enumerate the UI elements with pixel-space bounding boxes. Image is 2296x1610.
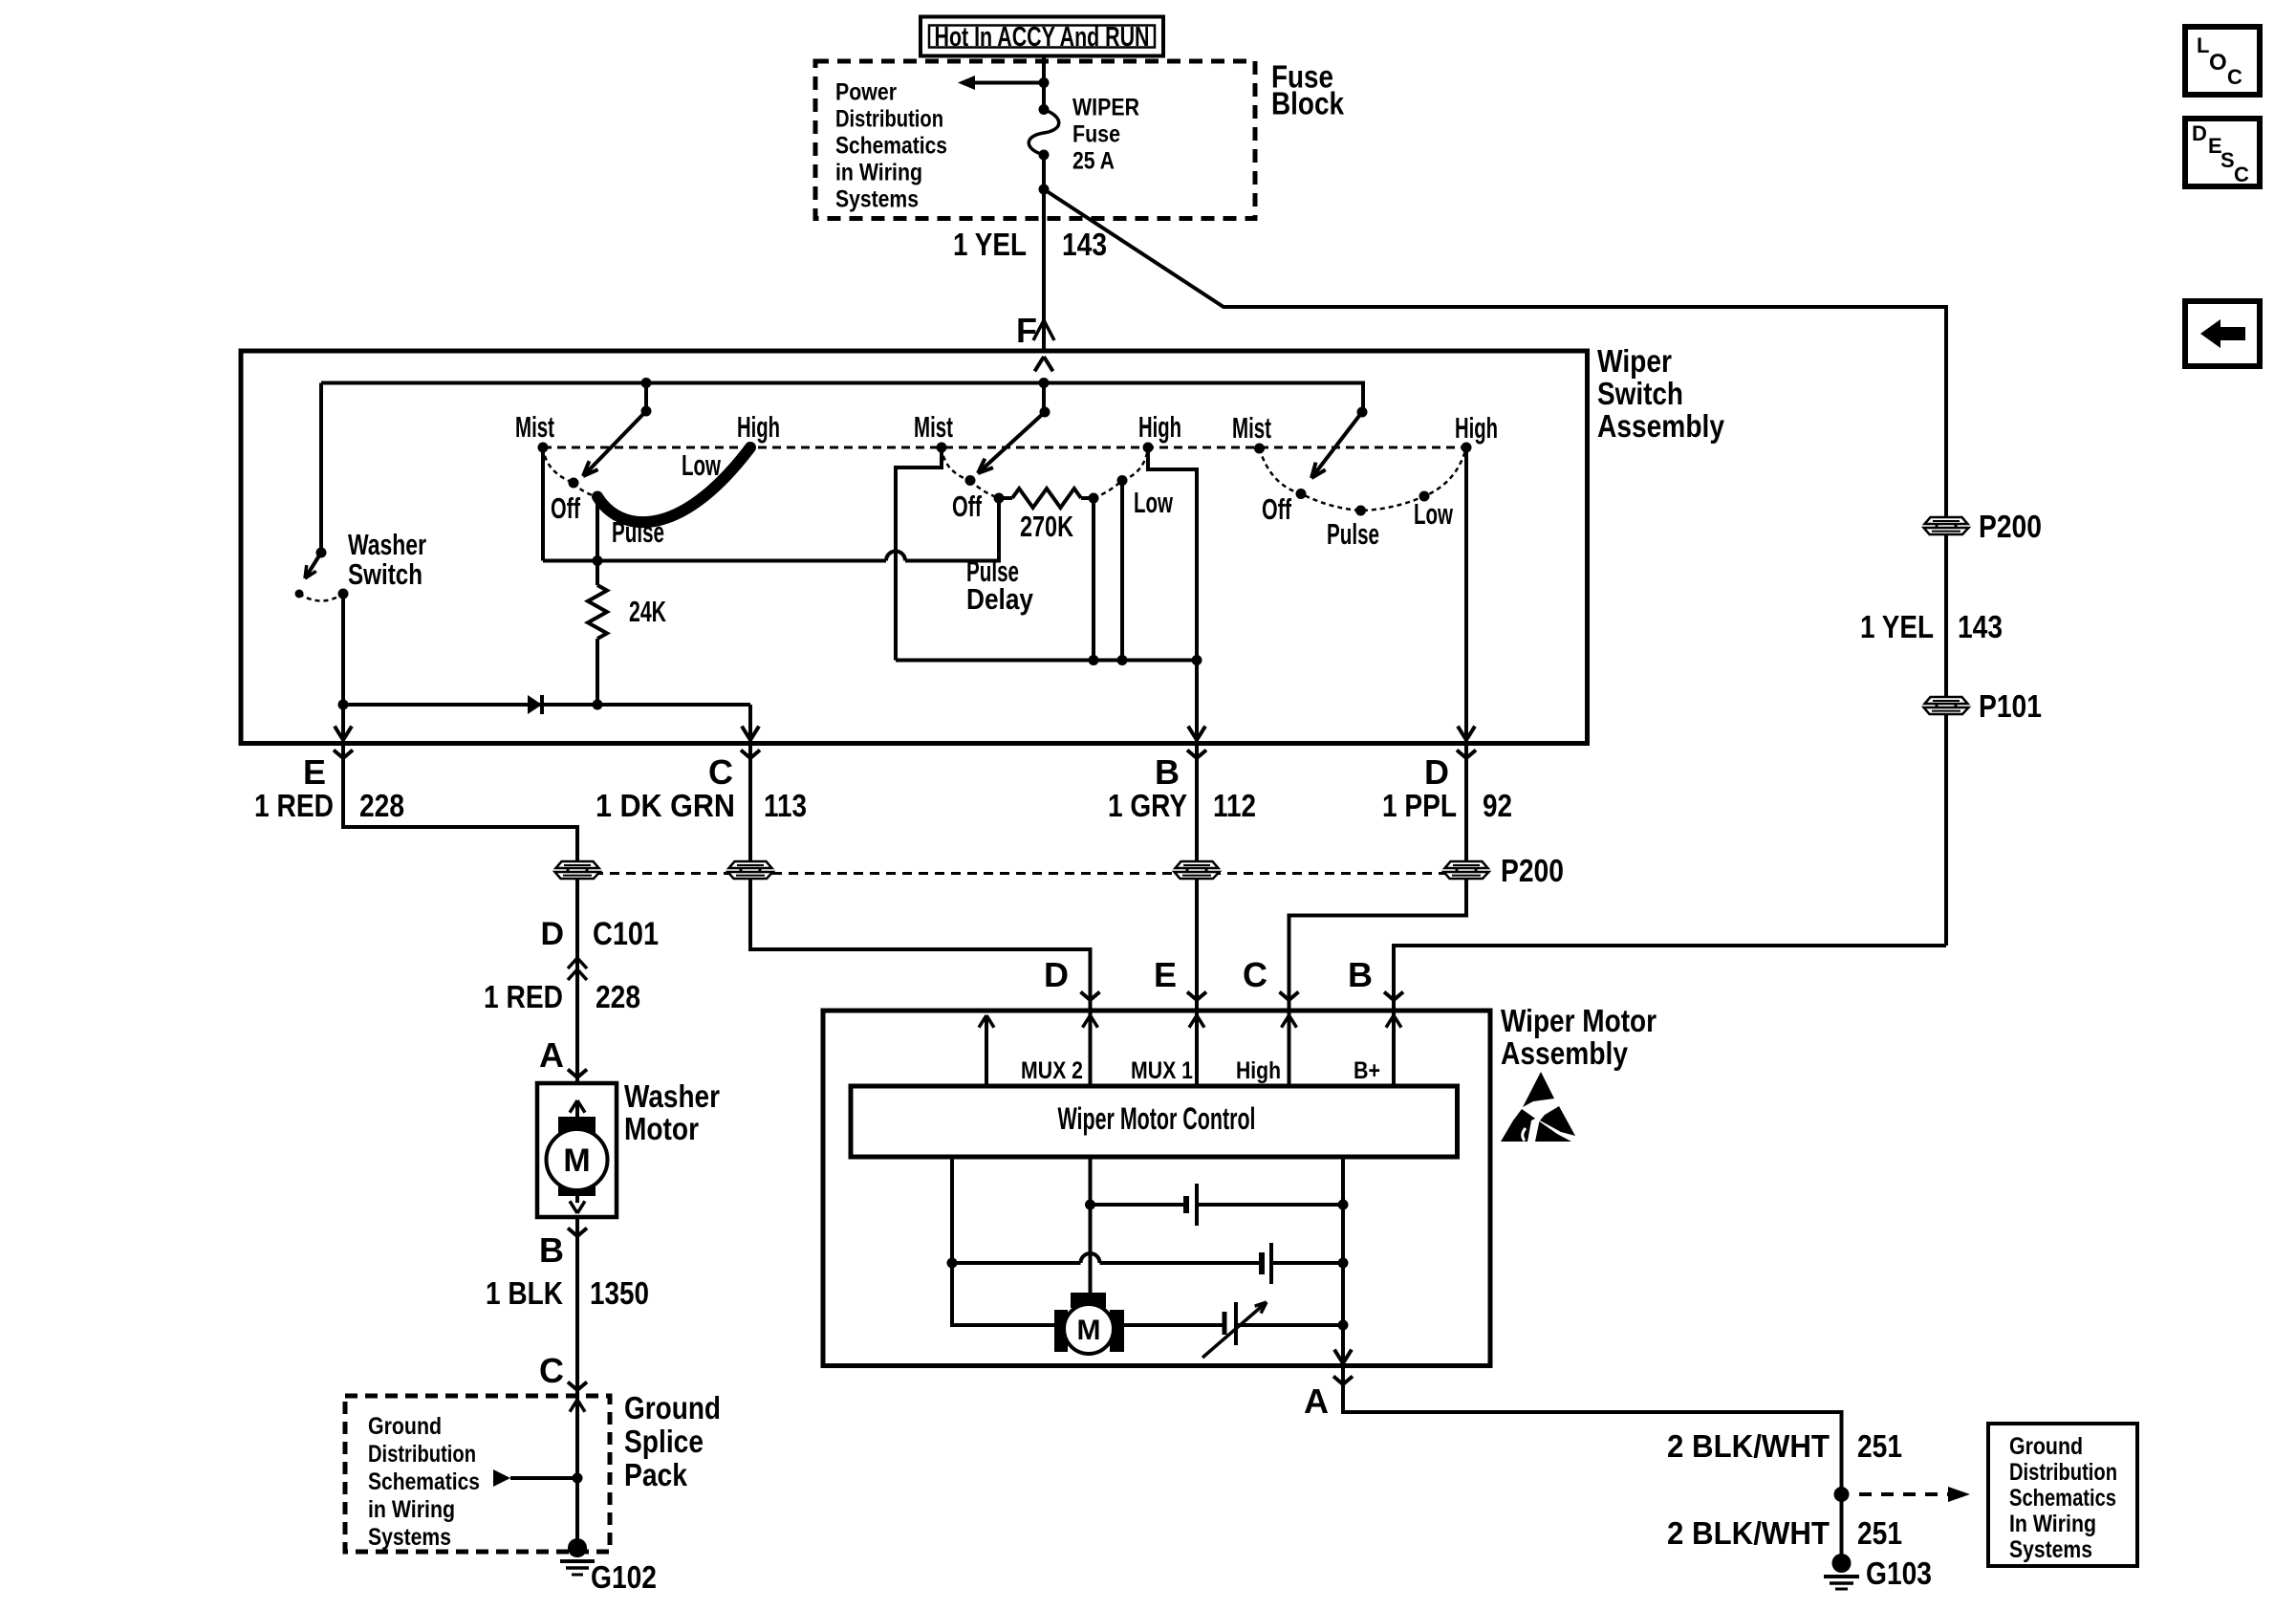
wiper motor assembly box xyxy=(823,1011,1490,1366)
switch 1 Off contact xyxy=(569,478,579,489)
connector P200 on PPL xyxy=(1444,861,1489,879)
svg-text:O: O xyxy=(2209,50,2227,76)
circuit E wire to washer motor xyxy=(343,744,577,1084)
svg-text:Motor: Motor xyxy=(624,1111,699,1146)
exit arrow D xyxy=(1458,727,1466,740)
connector C chevron xyxy=(741,751,750,759)
svg-text:Ground: Ground xyxy=(368,1413,442,1440)
node on feed wire xyxy=(1039,77,1050,88)
wire 1 BLK 1350 xyxy=(575,1217,579,1548)
svg-text:Washer: Washer xyxy=(348,528,426,561)
connector B chevron xyxy=(1187,751,1197,759)
svg-text:Off: Off xyxy=(952,490,982,523)
diode xyxy=(528,695,542,714)
svg-text:Switch: Switch xyxy=(1597,376,1683,411)
splice node xyxy=(1834,1487,1850,1502)
switch 2 High contact xyxy=(1143,443,1154,453)
switch 2 Mist contact xyxy=(937,443,947,453)
svg-text:1 DK GRN: 1 DK GRN xyxy=(596,788,735,823)
diode bus wire xyxy=(343,703,750,707)
switch 1 Pulse contact xyxy=(593,491,603,502)
switch 3 arm xyxy=(1311,412,1362,478)
internal supply bus wire xyxy=(321,383,1363,413)
connector P200 on 1 YEL xyxy=(1924,517,1969,534)
svg-text:High: High xyxy=(1455,411,1498,445)
mist 1 drop wire xyxy=(541,447,545,561)
svg-text:Pack: Pack xyxy=(624,1457,688,1492)
svg-text:1 BLK: 1 BLK xyxy=(486,1275,563,1311)
svg-text:1 GRY: 1 GRY xyxy=(1108,788,1187,823)
svg-text:MUX 2: MUX 2 xyxy=(1021,1057,1083,1084)
270K drop wire xyxy=(1092,498,1095,661)
washer motor brushes xyxy=(558,1117,596,1136)
svg-text:Splice: Splice xyxy=(624,1424,704,1459)
svg-text:25 A: 25 A xyxy=(1072,148,1115,175)
svg-text:24K: 24K xyxy=(629,595,666,628)
svg-text:B: B xyxy=(539,1230,564,1270)
mist 2 drop wire xyxy=(896,447,942,661)
svg-text:D: D xyxy=(540,916,564,952)
node below fuse xyxy=(1039,185,1050,195)
switch 2 Off contact xyxy=(965,475,976,486)
svg-text:A: A xyxy=(539,1035,564,1075)
ground distribution note right box xyxy=(1988,1424,2137,1566)
svg-text:Systems: Systems xyxy=(835,186,919,213)
svg-text:Mist: Mist xyxy=(1232,411,1271,445)
switch 2 bottom bus xyxy=(896,659,1197,663)
svg-text:MUX 1: MUX 1 xyxy=(1131,1057,1193,1084)
washer motor M xyxy=(547,1129,608,1190)
switch 1 pivot xyxy=(641,406,652,417)
svg-text:P200: P200 xyxy=(1501,853,1564,888)
arrow to power distribution xyxy=(973,81,1044,85)
switch 2 pivot xyxy=(1040,407,1051,418)
circuit C wire to wiper motor D xyxy=(750,744,1091,1012)
LOC nav box xyxy=(2185,27,2260,95)
svg-text:Off: Off xyxy=(551,491,580,525)
svg-text:Hot In ACCY And RUN: Hot In ACCY And RUN xyxy=(935,22,1150,53)
svg-text:Ground: Ground xyxy=(2009,1433,2083,1460)
svg-text:B: B xyxy=(1155,752,1180,792)
svg-text:Low: Low xyxy=(1414,497,1454,531)
svg-text:228: 228 xyxy=(596,979,640,1014)
ground G102 xyxy=(568,1538,587,1557)
control line D internal xyxy=(1089,1011,1093,1086)
svg-text:Distribution: Distribution xyxy=(835,106,943,133)
exit arrow C xyxy=(742,727,750,740)
resistor 270K xyxy=(994,493,1005,504)
washer motor internal arrow down xyxy=(575,1196,579,1203)
svg-text:228: 228 xyxy=(359,788,404,823)
pulse 1 drop wire xyxy=(596,497,599,561)
svg-text:2 BLK/WHT: 2 BLK/WHT xyxy=(1667,1515,1830,1551)
svg-text:1 PPL: 1 PPL xyxy=(1382,788,1457,823)
ground G103 xyxy=(1832,1554,1852,1573)
svg-text:Distribution: Distribution xyxy=(2009,1459,2117,1486)
connector E chevron xyxy=(334,751,343,759)
svg-text:1 YEL: 1 YEL xyxy=(953,227,1027,262)
fuse WIPER 25A symbol xyxy=(1039,104,1050,115)
wire from hot feed into fuse block xyxy=(1042,56,1046,110)
wiper motor M symbol xyxy=(1071,1293,1106,1308)
low 2 drop wire xyxy=(1120,481,1124,661)
connector A chevron xyxy=(1333,1377,1343,1385)
capacitor row 2 with jump xyxy=(947,1258,958,1269)
wire fuse to branch xyxy=(1042,155,1046,351)
svg-text:112: 112 xyxy=(1213,788,1256,823)
switch 2 Low contact xyxy=(1117,475,1128,486)
svg-text:Power: Power xyxy=(835,79,897,106)
svg-text:C: C xyxy=(1243,955,1267,994)
splice arrow up xyxy=(577,1400,585,1412)
svg-text:G103: G103 xyxy=(1866,1556,1932,1591)
svg-text:in Wiring: in Wiring xyxy=(368,1496,455,1523)
svg-text:143: 143 xyxy=(1958,609,2003,644)
arrow into wiper switch assembly xyxy=(1044,357,1053,371)
exit arrow A xyxy=(1334,1350,1343,1363)
svg-text:in Wiring: in Wiring xyxy=(835,160,922,186)
washer motor internal arrow up xyxy=(577,1100,585,1113)
washer switch xyxy=(319,383,323,554)
bus node switch 1 xyxy=(641,378,652,388)
pin C drop wire xyxy=(748,705,752,744)
svg-text:Switch: Switch xyxy=(348,557,422,591)
connector F chevron xyxy=(1033,320,1044,340)
switch 3 Off contact xyxy=(1296,489,1307,499)
switch 1 Mist contact xyxy=(538,443,549,453)
svg-text:Ground: Ground xyxy=(624,1390,721,1425)
svg-text:1 RED: 1 RED xyxy=(484,979,563,1014)
circuit B+ feed wire xyxy=(1394,946,1946,1011)
control line E internal xyxy=(1195,1011,1199,1086)
switch 3 Low contact xyxy=(1419,491,1430,502)
svg-text:1 YEL: 1 YEL xyxy=(1860,609,1934,644)
connector row P200 dashed line xyxy=(577,872,1466,875)
capacitor row 1 xyxy=(1085,1200,1095,1210)
circuit D wire to wiper motor C xyxy=(1289,744,1467,1012)
switch 1 dashed throw xyxy=(543,447,574,483)
left rail wire xyxy=(952,1157,1054,1325)
svg-text:Distribution: Distribution xyxy=(368,1441,476,1468)
bus node F xyxy=(1039,378,1050,388)
right rail wire xyxy=(1341,1157,1345,1366)
svg-text:Schematics: Schematics xyxy=(368,1469,480,1495)
svg-text:Delay: Delay xyxy=(966,582,1034,616)
svg-text:P200: P200 xyxy=(1979,509,2042,544)
high 2 branch wire xyxy=(1148,447,1197,744)
wiper motor control box xyxy=(851,1086,1458,1157)
svg-text:F: F xyxy=(1016,311,1037,350)
connector D chevron xyxy=(1457,751,1466,759)
switch 2 dashed throw right xyxy=(1094,481,1122,499)
svg-text:D: D xyxy=(2192,121,2207,145)
control line MUX2 internal xyxy=(985,1015,988,1086)
svg-text:P101: P101 xyxy=(1979,688,2042,724)
svg-text:D: D xyxy=(1424,752,1449,792)
svg-text:M: M xyxy=(1077,1315,1101,1346)
svg-text:Wiper Motor: Wiper Motor xyxy=(1501,1003,1657,1038)
svg-text:Wiper: Wiper xyxy=(1597,343,1672,379)
svg-text:113: 113 xyxy=(764,788,807,823)
svg-text:M: M xyxy=(563,1142,590,1179)
splice branch arrow xyxy=(493,1469,510,1487)
svg-text:D: D xyxy=(1044,955,1069,994)
svg-text:Mist: Mist xyxy=(515,410,554,444)
svg-text:L: L xyxy=(2197,33,2209,57)
DESC nav box xyxy=(2185,119,2260,186)
stub to pivot 1 xyxy=(644,383,648,412)
switch 1 wiper sweep arc xyxy=(597,447,750,522)
svg-text:Schematics: Schematics xyxy=(2009,1485,2116,1512)
ground splice pack dashed box xyxy=(345,1396,610,1552)
resistor 24K xyxy=(588,585,607,639)
svg-text:2 BLK/WHT: 2 BLK/WHT xyxy=(1667,1428,1830,1464)
svg-text:High: High xyxy=(1138,410,1181,444)
svg-text:C101: C101 xyxy=(593,916,659,952)
svg-text:251: 251 xyxy=(1857,1428,1902,1464)
switch 3 pivot xyxy=(1357,407,1368,418)
svg-text:1 RED: 1 RED xyxy=(254,788,334,823)
detent dashed line xyxy=(543,446,1466,449)
svg-text:C: C xyxy=(539,1351,564,1390)
exit arrow B xyxy=(1188,727,1197,740)
svg-text:Block: Block xyxy=(1271,86,1345,121)
control line C internal xyxy=(1288,1011,1291,1086)
svg-text:E: E xyxy=(303,752,326,792)
branch wire to right rail 1 YEL 143 xyxy=(1044,189,1946,946)
svg-text:Assembly: Assembly xyxy=(1597,408,1725,444)
stub to pivot 2 xyxy=(1042,383,1046,413)
switch 3 contacts dashed arc xyxy=(1260,447,1467,511)
pulse delay wire with jump xyxy=(543,559,886,563)
circuit ground wire 2 BLK WHT xyxy=(1343,1366,1842,1564)
switch 3 High contact xyxy=(1462,443,1472,453)
switch 3 Mist contact xyxy=(1254,444,1265,454)
svg-text:In Wiring: In Wiring xyxy=(2009,1511,2096,1537)
svg-text:270K: 270K xyxy=(1020,510,1073,543)
svg-text:B+: B+ xyxy=(1354,1057,1380,1084)
svg-text:G102: G102 xyxy=(591,1559,657,1595)
switch 1 High contact xyxy=(746,443,756,453)
fuse block dashed box xyxy=(815,61,1255,219)
svg-text:Low: Low xyxy=(1134,486,1174,519)
variable resistor xyxy=(1223,1312,1227,1335)
svg-text:92: 92 xyxy=(1483,788,1512,823)
svg-text:Pulse: Pulse xyxy=(1327,517,1379,551)
svg-text:1350: 1350 xyxy=(590,1275,649,1311)
switch 2 arm xyxy=(978,412,1045,473)
svg-text:WIPER: WIPER xyxy=(1072,95,1139,121)
connector P200 on DK GRN xyxy=(728,861,773,879)
washer motor box xyxy=(537,1083,617,1217)
ESD symbol xyxy=(1523,1072,1554,1107)
svg-text:High: High xyxy=(737,410,780,444)
svg-text:Wiper Motor Control: Wiper Motor Control xyxy=(1058,1101,1256,1136)
washer motor pin B xyxy=(568,1229,577,1237)
svg-text:C: C xyxy=(708,752,733,792)
connector P200 on RED xyxy=(555,861,600,879)
svg-text:Fuse: Fuse xyxy=(1072,121,1120,148)
high 3 drop wire xyxy=(1464,447,1468,744)
svg-text:B: B xyxy=(1348,955,1373,994)
wiper switch assembly box xyxy=(241,351,1588,744)
back arrow nav box xyxy=(2185,301,2260,366)
svg-text:Washer: Washer xyxy=(624,1078,720,1114)
connector P101 on 1 YEL xyxy=(1924,697,1969,714)
svg-text:143: 143 xyxy=(1062,227,1107,262)
svg-text:251: 251 xyxy=(1857,1515,1902,1551)
power source box Hot In ACCY And RUN xyxy=(921,17,1163,56)
svg-text:C: C xyxy=(2227,65,2242,89)
dashed arrow to ground distribution xyxy=(1859,1492,1948,1496)
exit arrow E xyxy=(335,727,343,740)
svg-text:Systems: Systems xyxy=(2009,1536,2092,1563)
connector P200 on GRY xyxy=(1175,861,1220,879)
svg-text:A: A xyxy=(1304,1382,1329,1421)
svg-text:C: C xyxy=(2234,163,2249,186)
switch 3 Pulse contact xyxy=(1355,506,1366,516)
washer drop wire to diode bus xyxy=(341,594,345,744)
circuit B wire to wiper motor E xyxy=(1195,744,1199,1012)
mid rail wire xyxy=(1089,1157,1093,1293)
svg-text:S: S xyxy=(2220,148,2235,172)
control line B internal xyxy=(1392,1011,1396,1086)
svg-text:Low: Low xyxy=(682,448,722,482)
motor output wire xyxy=(1124,1323,1224,1327)
svg-text:E: E xyxy=(1154,955,1177,994)
svg-text:High: High xyxy=(1236,1057,1281,1084)
switch 2 dashed throw left xyxy=(942,447,970,481)
svg-text:Assembly: Assembly xyxy=(1501,1035,1629,1071)
svg-text:Mist: Mist xyxy=(914,410,953,444)
svg-text:Schematics: Schematics xyxy=(835,133,947,160)
svg-text:Off: Off xyxy=(1262,492,1291,526)
switch 1 arm xyxy=(583,411,646,476)
svg-text:Systems: Systems xyxy=(368,1524,451,1551)
